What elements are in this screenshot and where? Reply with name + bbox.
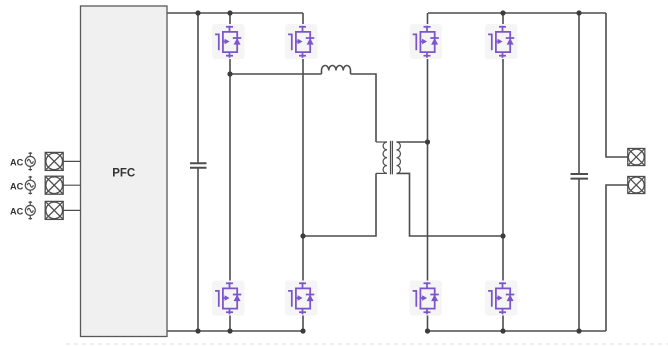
svg-text:AC: AC (10, 158, 24, 168)
svg-text:AC: AC (10, 207, 24, 217)
svg-text:AC: AC (10, 181, 24, 191)
svg-text:PFC: PFC (112, 168, 135, 180)
